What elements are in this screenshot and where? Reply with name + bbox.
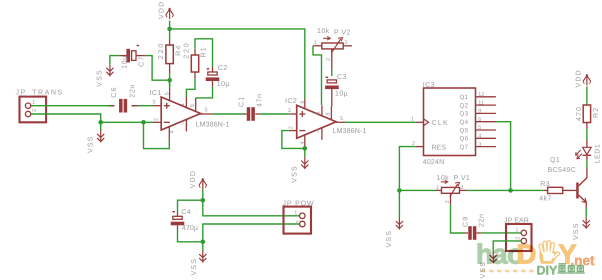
- svg-text:10µ: 10µ: [335, 90, 348, 97]
- svg-text:IC2: IC2: [285, 98, 297, 105]
- trimmer P V2 10k: [313, 37, 352, 55]
- svg-text:4: 4: [169, 130, 175, 133]
- svg-text:Q1: Q1: [550, 157, 560, 164]
- svg-text:9: 9: [478, 109, 481, 115]
- junction IC2 pin4 node: [303, 146, 308, 151]
- label P V1: [454, 175, 471, 182]
- svg-text:VSS: VSS: [386, 230, 393, 248]
- wire VDD to node: [202, 190, 204, 201]
- supply VDD power: [199, 178, 207, 189]
- label 10u C2: [217, 81, 230, 88]
- label JP_TRANS: [16, 89, 64, 96]
- ground VSS input: [97, 130, 104, 142]
- pin 1 IC2: [321, 105, 323, 115]
- pin label 7 IC2: [317, 129, 320, 135]
- pin stub CLK IC3: [415, 121, 423, 123]
- capacitor C4 470u: [171, 211, 185, 229]
- label 470u C4: [182, 225, 198, 232]
- svg-text:220: 220: [158, 42, 165, 59]
- junction power top: [201, 198, 206, 203]
- wire IC1 feedback pin2 to pin4: [144, 122, 170, 148]
- label IC3: [423, 82, 435, 89]
- resistor R3 4k7: [544, 187, 577, 193]
- resistor R1 220: [191, 49, 198, 79]
- label C3: [337, 74, 347, 81]
- pin label 2 P V2: [326, 58, 332, 61]
- wire IC2 pin4 to VSS: [304, 148, 306, 157]
- label C2: [218, 65, 228, 72]
- resistor R2 470: [583, 105, 590, 123]
- svg-text:4: 4: [300, 141, 306, 144]
- IC U3 4024N body: [424, 88, 476, 156]
- svg-text:7: 7: [181, 121, 184, 127]
- svg-text:2: 2: [445, 200, 451, 203]
- ground VSS at C7: [106, 64, 113, 76]
- svg-text:R4: R4: [176, 44, 183, 55]
- pin label 6 IC2: [300, 101, 306, 104]
- pin label 7 IC1: [181, 121, 184, 127]
- svg-text:3: 3: [152, 100, 155, 106]
- svg-text:470µ: 470µ: [182, 225, 198, 232]
- pin name Q7: [460, 144, 469, 151]
- label P V2: [334, 30, 351, 37]
- wire C4 loop: [178, 200, 203, 242]
- label 47n C1: [256, 93, 263, 107]
- pin label 3 P V2: [344, 40, 347, 46]
- pin number 9 IC3: [478, 109, 481, 115]
- svg-text:22n: 22n: [129, 84, 136, 98]
- label 470 R2: [576, 106, 583, 121]
- svg-text:5: 5: [478, 125, 481, 131]
- pin label 2 JP_POW: [296, 220, 302, 223]
- svg-text:4024N: 4024N: [423, 159, 445, 166]
- wire JP_TRANS pin1 to C6: [31, 105, 115, 107]
- pin label 2 IC1: [153, 118, 159, 121]
- label VDD LED: [576, 69, 583, 87]
- label 10k P V2: [317, 27, 330, 35]
- pin label 1 P V2: [314, 40, 317, 46]
- label R4: [176, 44, 183, 55]
- svg-text:D: D: [517, 239, 537, 270]
- svg-text:LM386N-1: LM386N-1: [196, 122, 230, 129]
- svg-text:VSS: VSS: [573, 222, 580, 240]
- pin 6 IC2: [304, 99, 306, 109]
- pin name RES: [432, 144, 447, 151]
- wire IC1 out to C1: [212, 113, 243, 115]
- svg-text:7: 7: [317, 129, 320, 135]
- pin label 2 JP_EAR: [516, 237, 522, 240]
- pin label 2 JP_TRANS: [32, 109, 38, 112]
- pin name Q5: [460, 127, 469, 134]
- label 10k P V1: [437, 174, 450, 182]
- wire P V2 pin1 to IC2 pin1: [313, 46, 322, 105]
- ground VSS power: [199, 251, 206, 263]
- svg-text:Q7: Q7: [460, 144, 469, 151]
- pin label 1 IC2: [316, 111, 322, 114]
- pin Q5 line IC3: [476, 129, 496, 131]
- connector JP_TRANS: [20, 97, 47, 123]
- svg-text:Q5: Q5: [460, 127, 469, 134]
- svg-text:470: 470: [576, 106, 583, 121]
- pin name Q6: [460, 136, 469, 143]
- svg-text:1: 1: [316, 111, 322, 114]
- svg-text:VDD: VDD: [576, 69, 583, 87]
- svg-text:C2: C2: [218, 65, 228, 72]
- label BC549C: [548, 167, 577, 174]
- wire rail to R3: [511, 189, 544, 191]
- capacitor C9 22n: [464, 226, 481, 240]
- junction rail left: [397, 188, 402, 193]
- pin label 4 IC2: [300, 141, 306, 144]
- pin Q4 line IC3: [476, 121, 496, 123]
- junction rail right: [508, 188, 513, 193]
- label LM386N-1 IC2: [333, 128, 367, 135]
- pin name CLK: [432, 120, 450, 127]
- wire IC2 out to IC3 CLK: [346, 121, 416, 123]
- wire to VSS below input: [100, 122, 102, 130]
- wire P V1 pin3 to rail right: [467, 189, 511, 191]
- pin label 1 CLK: [411, 117, 414, 123]
- pin label 5 IC1: [205, 108, 208, 114]
- svg-text:2: 2: [153, 118, 159, 121]
- pin label 2 IC2: [289, 126, 295, 129]
- wire R4 node to IC1 pin6: [169, 80, 171, 100]
- label Q1: [550, 157, 560, 164]
- svg-text:3: 3: [478, 142, 481, 148]
- wire R4 bottom junction: [169, 73, 171, 87]
- svg-text:11: 11: [478, 100, 484, 106]
- wire Q4 to rail: [496, 122, 511, 188]
- svg-text:4k7: 4k7: [539, 195, 552, 203]
- pin label 1 JP_POW: [294, 210, 297, 216]
- svg-text:1: 1: [515, 227, 518, 233]
- pin label 6 IC1: [165, 92, 171, 95]
- pin 7 IC2: [321, 128, 323, 140]
- label VSS at JP_EAR: [480, 261, 487, 279]
- label VSS at Q1: [573, 222, 580, 240]
- pin label 8 IC1: [190, 104, 196, 107]
- svg-text:IC3: IC3: [423, 82, 435, 89]
- svg-text:P V1: P V1: [454, 175, 471, 182]
- pin name Q3: [460, 111, 469, 118]
- pin label 2 RES: [412, 141, 415, 147]
- pin stub 3 IC1: [154, 105, 162, 107]
- svg-text:R2: R2: [593, 107, 600, 118]
- pin label 4 IC1: [169, 130, 175, 133]
- svg-text:1: 1: [314, 40, 317, 46]
- pin number 11 IC3: [478, 100, 484, 106]
- svg-text:3: 3: [288, 108, 291, 114]
- label C7: [138, 55, 145, 66]
- svg-text:LED1: LED1: [595, 144, 602, 164]
- wire JP_EAR pin2 to VSS: [493, 241, 521, 252]
- svg-text:VSS: VSS: [191, 258, 198, 276]
- ground VSS at JP_EAR: [490, 252, 497, 264]
- svg-text:P V2: P V2: [334, 30, 351, 37]
- pin 7 IC1: [185, 120, 187, 132]
- capacitor C3 10u: [325, 77, 339, 107]
- label 4024N: [423, 159, 445, 166]
- svg-text:2: 2: [296, 220, 302, 223]
- pin number 3 IC3: [478, 142, 481, 148]
- svg-text:DIY: DIY: [537, 264, 559, 278]
- pin label 1 JP_EAR: [515, 227, 518, 233]
- label 22n C9: [479, 213, 486, 227]
- capacitor C6 22n: [109, 99, 137, 113]
- svg-text:C1: C1: [239, 96, 246, 107]
- svg-text:Q6: Q6: [460, 136, 469, 143]
- supply VDD main: [166, 8, 174, 19]
- wire IC2 pin2 loop: [282, 131, 303, 149]
- op-amp IC1 LM386N-1: [161, 97, 200, 130]
- connector JP_POW: [284, 207, 312, 234]
- label VSS input: [87, 135, 94, 153]
- svg-text:6: 6: [300, 101, 306, 104]
- pin stub 2 IC1: [154, 121, 162, 123]
- label R3: [540, 181, 550, 188]
- label 220 R4: [158, 42, 165, 59]
- label LM386N-1 IC1: [196, 122, 230, 129]
- svg-text:1: 1: [411, 117, 414, 123]
- label 10u C3: [335, 90, 348, 97]
- label VSS below IC2: [291, 165, 298, 183]
- junction VDD rail: [167, 27, 172, 32]
- label IC2: [285, 98, 297, 105]
- svg-text:1: 1: [294, 210, 297, 216]
- pin number 12 IC3: [478, 92, 484, 98]
- label C9: [462, 216, 469, 227]
- pin 4 IC2: [304, 135, 306, 147]
- svg-text:JP EAR: JP EAR: [504, 217, 529, 224]
- svg-text:IC1: IC1: [150, 90, 162, 97]
- svg-text:Q2: Q2: [460, 102, 469, 109]
- resistor R4 220: [166, 40, 173, 74]
- wire power bottom to VSS: [202, 242, 204, 251]
- pin label 3 IC1: [152, 100, 155, 106]
- pin name Q4: [460, 119, 469, 126]
- wire VDD to R4 and top rail: [169, 21, 171, 40]
- svg-text:C9: C9: [462, 216, 469, 227]
- svg-text:C3: C3: [337, 74, 347, 81]
- wire rail left VSS: [398, 190, 400, 217]
- svg-text:LM386N-1: LM386N-1: [333, 128, 367, 135]
- svg-text:10µ: 10µ: [121, 55, 128, 69]
- wire R2 to LED: [586, 123, 588, 148]
- label 22n C6: [129, 84, 136, 98]
- junction IC1 pin2 node: [141, 120, 146, 125]
- svg-text:5: 5: [340, 116, 343, 122]
- pin label 5 IC2: [340, 116, 343, 122]
- pin label 3 IC2: [288, 108, 291, 114]
- label 10u C7: [121, 55, 128, 69]
- pin label 1 IC1: [180, 103, 186, 106]
- wire Q1 emitter to VSS: [585, 208, 587, 217]
- svg-text:Q4: Q4: [460, 119, 469, 126]
- svg-text:5: 5: [205, 108, 208, 114]
- label R2: [593, 107, 600, 118]
- wire P V1 wiper to C9: [451, 205, 465, 233]
- svg-text:2: 2: [32, 109, 38, 112]
- svg-text:C4: C4: [181, 209, 191, 216]
- wire R1 top to C2 top: [195, 39, 213, 67]
- svg-text:VDD: VDD: [158, 1, 165, 19]
- pin 5 stub IC2: [336, 121, 345, 123]
- wire C7 right to R4 node: [146, 56, 168, 81]
- watermark haoDIY logo: [476, 239, 595, 278]
- pin 5 stub IC1: [201, 113, 213, 115]
- label C4: [181, 209, 191, 216]
- svg-text:BC549C: BC549C: [548, 167, 577, 174]
- wire C6 to IC1 pin3: [132, 105, 154, 107]
- connector JP_EAR: [506, 224, 532, 251]
- svg-text:Q1: Q1: [460, 94, 469, 101]
- label JP_EAR: [504, 217, 529, 224]
- svg-text:10k: 10k: [437, 174, 450, 182]
- pin number 6 IC3: [478, 117, 481, 123]
- pin Q7 line IC3: [476, 146, 496, 148]
- pin number 5 IC3: [478, 125, 481, 131]
- pin Q3 line IC3: [476, 112, 496, 114]
- svg-text:6: 6: [478, 117, 481, 123]
- svg-text:R1: R1: [201, 46, 208, 57]
- transistor Q1 BC549C: [576, 168, 587, 208]
- label VSS rail: [386, 230, 393, 248]
- wire C2 bottom to IC1 pin8: [196, 87, 213, 111]
- svg-text:1: 1: [436, 185, 439, 191]
- label C6: [111, 86, 118, 97]
- label VSS at C7: [97, 69, 104, 87]
- label VSS power: [191, 258, 198, 276]
- label JP_POW: [283, 201, 315, 208]
- pin name Q2: [460, 102, 469, 109]
- pin Q6 line IC3: [476, 137, 496, 139]
- wire power to JP_POW pin1: [203, 200, 299, 216]
- capacitor C2 10u: [206, 67, 220, 87]
- pin stub 3 IC2: [289, 113, 297, 115]
- capacitor C7 10u: [120, 45, 146, 63]
- pin label 1 JP_TRANS: [32, 99, 35, 105]
- junction R4 bottom: [167, 78, 172, 83]
- svg-text:8: 8: [326, 112, 332, 115]
- svg-text:JP_TRANS: JP_TRANS: [16, 89, 64, 96]
- svg-text:47n: 47n: [256, 93, 263, 107]
- svg-text:VSS: VSS: [87, 135, 94, 153]
- svg-text:1: 1: [32, 99, 35, 105]
- wire C7 left to VSS: [110, 56, 120, 65]
- label 220 R1: [184, 41, 191, 58]
- svg-text:VSS: VSS: [97, 69, 104, 87]
- label C1: [239, 96, 246, 107]
- label R1: [201, 46, 208, 57]
- capacitor C1 47n: [243, 107, 259, 121]
- ground VSS at Q1: [583, 217, 590, 229]
- wire power to JP_POW pin2: [203, 224, 299, 242]
- wire RES to rail: [399, 147, 415, 188]
- ground VSS below IC2: [301, 157, 308, 169]
- wire VDD to R2: [586, 87, 588, 106]
- svg-text:Q3: Q3: [460, 111, 469, 118]
- op-amp IC2 LM386N-1: [297, 105, 336, 138]
- svg-text:8: 8: [190, 104, 196, 107]
- svg-text:RES: RES: [432, 144, 447, 151]
- pin number 4 IC3: [478, 134, 481, 140]
- pin label 2 P V1: [445, 200, 451, 203]
- svg-text:JP POW: JP POW: [283, 201, 315, 208]
- wire C9 to JP_EAR pin1: [481, 232, 521, 234]
- svg-text:12: 12: [478, 92, 484, 98]
- svg-text:C7: C7: [138, 55, 145, 66]
- svg-text:2: 2: [289, 126, 295, 129]
- wire top rail to IC2 pin6: [170, 29, 305, 99]
- wire C1 to IC2 pin3: [259, 113, 289, 115]
- wire LED to Q1 collector: [586, 155, 588, 168]
- svg-text:220: 220: [184, 41, 191, 58]
- label VDD main: [158, 1, 165, 19]
- label 4k7 R3: [539, 195, 552, 203]
- wire rail to P V1: [399, 189, 435, 191]
- pin stub RES IC3: [415, 146, 423, 148]
- svg-text:VDD: VDD: [190, 170, 197, 188]
- svg-text:10k: 10k: [317, 27, 330, 35]
- pin 4 IC1: [168, 127, 170, 140]
- pin stub 2 IC2: [289, 130, 297, 132]
- label VDD power: [190, 170, 197, 188]
- svg-text:4: 4: [478, 134, 481, 140]
- pin name Q1: [460, 94, 469, 101]
- pin Q1 line IC3: [476, 96, 496, 98]
- svg-text:C6: C6: [111, 86, 118, 97]
- pin label 1 P V1: [436, 185, 439, 191]
- svg-text:3: 3: [344, 40, 347, 46]
- svg-text:10µ: 10µ: [217, 81, 230, 88]
- pin Q2 line IC3: [476, 104, 496, 106]
- trimmer P V1 10k: [435, 180, 467, 204]
- pin label 8 IC2: [326, 112, 332, 115]
- junction at input ground: [98, 120, 103, 125]
- label LED1: [595, 144, 602, 164]
- svg-text:6: 6: [165, 92, 171, 95]
- label IC1: [150, 90, 162, 97]
- ground VSS rail: [396, 218, 403, 230]
- supply VDD LED: [583, 74, 591, 85]
- diode LED1: [576, 147, 592, 159]
- svg-text:3: 3: [460, 185, 463, 191]
- svg-text:R3: R3: [540, 181, 550, 188]
- wire R1 bottom to IC1 pin1: [186, 79, 195, 107]
- wire JP_TRANS pin2 to ground node: [31, 114, 154, 122]
- wire P V2 wiper to C3: [331, 49, 333, 76]
- junction power bottom: [201, 240, 206, 245]
- pin label 3 P V1: [460, 185, 463, 191]
- pin 8 IC2: [330, 106, 332, 119]
- svg-text:CLK: CLK: [432, 120, 450, 127]
- svg-text:22n: 22n: [479, 213, 486, 227]
- svg-text:VSS: VSS: [291, 165, 298, 183]
